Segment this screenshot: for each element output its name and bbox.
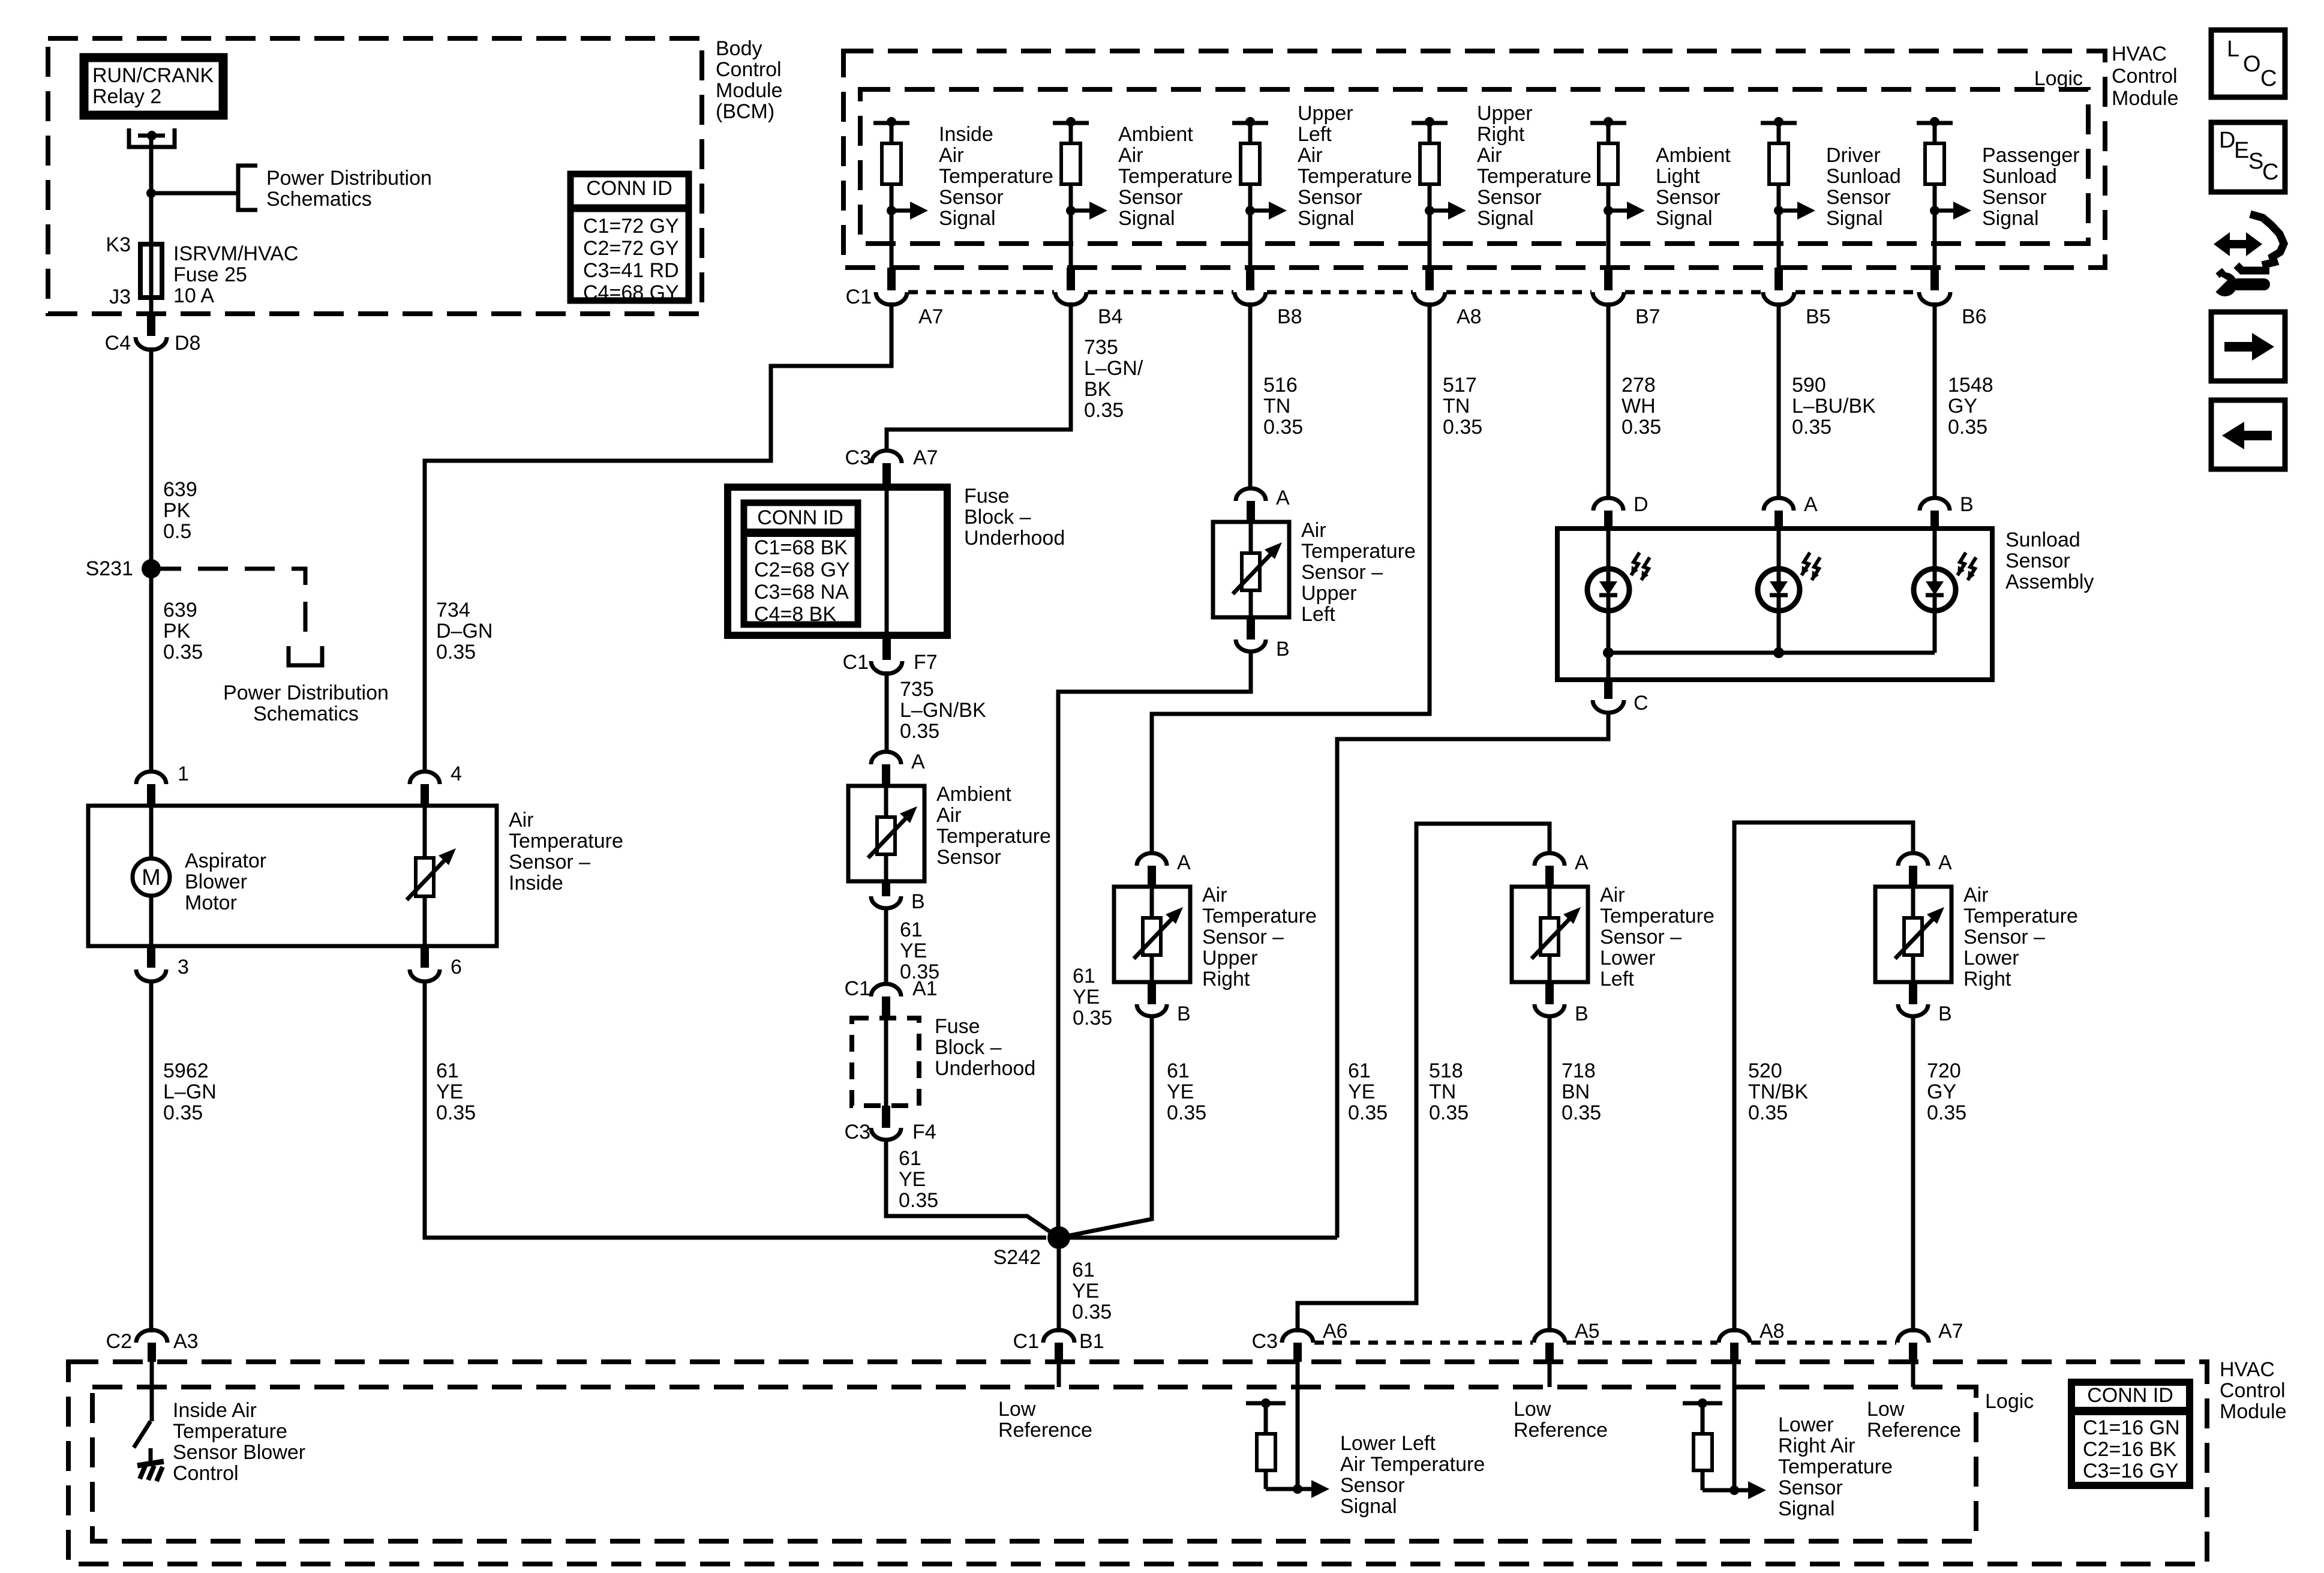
S242 to sunload branch wire [1059,1236,1337,1240]
svg-text:Temperature: Temperature [1778,1455,1893,1478]
svg-text:Sensor –: Sensor – [1202,926,1284,948]
svg-text:Lower: Lower [1600,947,1656,969]
wire 61 YE 0.35 (upper left B to S242) [1058,650,1251,1238]
svg-text:D: D [1634,493,1649,516]
svg-text:0.35: 0.35 [1622,416,1661,439]
svg-text:A: A [1804,493,1818,516]
Logic inner dashed box (top) [860,89,2088,244]
svg-text:Signal: Signal [1982,207,2039,230]
svg-text:Sensor: Sensor [1656,186,1721,209]
svg-text:C2: C2 [106,1330,132,1353]
connector C1/F7 (fuse block bottom) [882,639,891,660]
dashed branch to power distribution [151,569,305,646]
svg-text:4: 4 [451,763,462,785]
svg-text:A: A [1938,851,1952,874]
svg-text:L–BU/BK: L–BU/BK [1792,395,1876,418]
wire to switch [150,1362,154,1421]
svg-text:TN/BK: TN/BK [1748,1080,1808,1103]
svg-text:S: S [2248,149,2263,174]
logic element: Upper Right Air Temperature Sensor Signal [1412,121,1448,125]
svg-text:0.35: 0.35 [163,1101,203,1124]
svg-text:Sensor: Sensor [936,846,1001,869]
svg-text:B: B [1575,1002,1589,1025]
svg-text:Air: Air [1963,884,1989,906]
svg-text:M: M [142,865,161,890]
svg-text:Temperature: Temperature [936,825,1051,848]
wire 61 YE 0.35 (ambient B down) [884,908,888,984]
svg-text:Lower Left: Lower Left [1340,1432,1436,1455]
svg-text:Logic: Logic [1985,1390,2034,1413]
svg-text:C2=72 GY: C2=72 GY [583,237,679,260]
svg-text:61: 61 [900,918,923,941]
svg-text:C4: C4 [105,332,131,355]
svg-text:Fuse: Fuse [964,485,1010,508]
wire 518 TN 0.35 (A6 to lower left sensor A) [1298,824,1550,1332]
wire 1548 GY 0.35 (B6 to sunload B) [1933,302,1937,499]
svg-text:C3: C3 [1252,1330,1278,1353]
wire to power distribution [151,191,238,196]
svg-text:518: 518 [1429,1059,1463,1082]
svg-text:Signal: Signal [939,207,996,230]
logic element: Upper Left Air Temperature Sensor Signal [1232,121,1268,125]
splice S231 [142,559,161,578]
svg-text:Upper: Upper [1477,102,1533,125]
svg-text:Sensor –: Sensor – [1963,926,2045,948]
svg-text:61: 61 [1072,1259,1095,1281]
svg-text:61: 61 [1073,965,1095,987]
lower right air temperature sensor signal (logic) [1733,1362,1737,1490]
svg-text:YE: YE [1073,986,1100,1008]
wire 61 YE 0.35 (sunload C to S242) [1337,712,1608,1238]
svg-text:Inside Air: Inside Air [173,1399,257,1422]
svg-text:J3: J3 [109,286,131,308]
wire 5962 L-GN 0.35 [149,980,154,1332]
svg-text:A8: A8 [1457,305,1482,328]
svg-text:D–GN: D–GN [436,620,493,643]
svg-text:C3: C3 [845,446,871,469]
svg-text:61: 61 [1167,1059,1190,1082]
Body Control Module (BCM) dashed box [48,38,702,314]
logic element: Ambient Light Sensor Signal [1590,121,1626,125]
svg-text:C1=68 BK: C1=68 BK [754,536,848,559]
svg-text:F7: F7 [914,651,938,674]
svg-text:L–GN: L–GN [163,1080,217,1103]
svg-text:Driver: Driver [1826,144,1881,167]
svg-text:Low: Low [1867,1398,1905,1421]
svg-text:Left: Left [1600,968,1634,990]
svg-text:0.35: 0.35 [1429,1101,1469,1124]
svg-text:Sunload: Sunload [1982,165,2057,188]
svg-text:Ambient: Ambient [1656,144,1731,167]
Fuse Block - Underhood dashed box [852,1018,919,1106]
logic element: Ambient Air Temperature Sensor Signal [1053,121,1089,125]
connector pin A [1236,488,1266,501]
svg-text:A7: A7 [913,446,938,469]
connector A5 [1534,1330,1565,1343]
svg-text:YE: YE [436,1080,463,1103]
svg-text:61: 61 [899,1147,921,1170]
svg-text:Underhood: Underhood [964,527,1065,550]
Aspirator Blower Motor box [88,806,497,946]
wire 735 L-GN/BK 0.35 [885,671,889,752]
svg-text:S242: S242 [993,1246,1041,1269]
svg-text:Upper: Upper [1298,102,1353,125]
variable resistor element [1213,522,1289,617]
relay K: RUN/CRANK Relay 2 box [84,58,223,115]
svg-text:Control: Control [2112,65,2178,88]
svg-text:C3=41 RD: C3=41 RD [583,259,679,282]
wire through fuse block [885,484,889,639]
svg-text:C2=68 GY: C2=68 GY [754,559,850,581]
connector C1/A1 [871,984,901,996]
svg-text:Sensor –: Sensor – [1600,926,1682,948]
icon: back arrow box [2211,400,2285,469]
svg-text:0.35: 0.35 [1072,1301,1112,1323]
icon: forward arrow box [2211,312,2285,381]
svg-text:Temperature: Temperature [509,830,623,852]
wire 61 YE 0.35 (to S242) [886,1140,1059,1238]
svg-text:Aspirator: Aspirator [185,849,266,872]
svg-text:CONN ID: CONN ID [586,177,672,200]
connector A8 (bottom) [1719,1330,1750,1343]
wrench [2232,278,2270,290]
svg-text:PK: PK [163,499,191,522]
svg-text:Temperature: Temperature [1298,165,1412,188]
connector row dotted line (bottom module) [1314,1341,1533,1345]
svg-text:B: B [1938,1002,1952,1025]
svg-text:Air: Air [509,809,534,831]
connector pin B [1148,982,1156,1004]
svg-text:B4: B4 [1098,305,1123,328]
svg-text:Right: Right [1202,968,1250,990]
logic element: Driver Sunload Sensor Signal [1761,121,1797,125]
svg-text:Air: Air [1600,884,1625,906]
off-page bracket (power distribution) [289,646,322,665]
svg-text:Temperature: Temperature [173,1420,287,1443]
svg-text:590: 590 [1792,374,1826,397]
svg-text:Ambient: Ambient [1118,123,1193,146]
wire 61 YE 0.35 (upper right B to S242) [1059,1014,1152,1238]
wire fuse to BCM edge [149,298,154,314]
svg-text:HVAC: HVAC [2220,1358,2275,1381]
svg-text:Assembly: Assembly [2005,571,2094,593]
svg-text:0.35: 0.35 [163,641,203,664]
lower left air temperature sensor signal (logic) [1296,1362,1300,1489]
connector C (sunload) [1604,680,1613,699]
svg-text:B1: B1 [1079,1330,1104,1353]
svg-text:5962: 5962 [163,1059,209,1082]
svg-text:Air: Air [936,804,962,827]
connector B7 [1604,268,1613,290]
svg-text:B5: B5 [1806,305,1831,328]
photodiode 2 [1777,529,1781,569]
svg-text:C: C [2260,66,2277,91]
svg-text:Logic: Logic [2034,67,2083,90]
svg-text:BK: BK [1084,378,1112,401]
relay contact latch symbol [129,128,175,147]
svg-text:Sensor –: Sensor – [1301,561,1383,584]
svg-text:Relay 2: Relay 2 [92,85,161,108]
connector pin B [1909,982,1917,1004]
svg-text:Sensor: Sensor [1118,186,1183,209]
svg-text:Temperature: Temperature [1202,905,1317,927]
svg-text:Sensor: Sensor [1982,186,2047,209]
svg-text:Motor: Motor [185,891,237,914]
svg-text:Power Distribution: Power Distribution [223,682,389,704]
photodiode 3 [1933,529,1937,569]
svg-text:3: 3 [178,956,189,978]
svg-text:Air: Air [1202,884,1227,906]
wire 639 PK 0.35 [149,569,154,771]
wire 718 BN 0.35 (lower left B to A5) [1548,1014,1552,1332]
svg-text:A7: A7 [918,305,944,328]
svg-text:A: A [1177,851,1191,874]
svg-text:C1=72 GY: C1=72 GY [583,215,679,238]
svg-text:TN: TN [1263,395,1290,418]
icon: wrench and double arrow (diagnostic) [2214,232,2262,256]
svg-text:A5: A5 [1575,1320,1600,1343]
svg-text:A3: A3 [173,1330,199,1353]
svg-text:Signal: Signal [1298,207,1355,230]
variable resistor element [848,786,924,881]
connector B8 [1246,268,1254,290]
svg-text:C1: C1 [843,651,869,674]
svg-text:B7: B7 [1635,305,1661,328]
svg-text:C1: C1 [845,977,870,1000]
svg-text:Blower: Blower [185,870,247,893]
svg-text:S231: S231 [86,557,133,580]
variable resistor element [1875,887,1951,982]
svg-text:Ambient: Ambient [936,783,1011,806]
wire 61 YE 0.35 (S242 to B1) [1057,1238,1061,1332]
svg-text:WH: WH [1622,395,1656,418]
fuse block CONN ID table [744,503,858,625]
svg-text:Low: Low [1514,1398,1551,1421]
node: power distribution tap [146,188,156,198]
svg-text:L–GN/BK: L–GN/BK [900,699,986,722]
icon: LOC box [2211,30,2285,97]
svg-text:D: D [2219,128,2235,153]
connector pin A [1535,853,1565,866]
connector pin 3 [147,946,155,968]
svg-text:639: 639 [163,478,197,501]
svg-text:Sensor: Sensor [1298,186,1362,209]
wire 516 TN 0.35 (B8 to upper left sensor) [1248,302,1253,488]
svg-text:Sensor: Sensor [1477,186,1542,209]
svg-text:0.35: 0.35 [1348,1101,1388,1124]
svg-text:YE: YE [900,939,927,962]
svg-text:C3=68 NA: C3=68 NA [754,581,849,604]
svg-text:0.35: 0.35 [436,1101,476,1124]
svg-text:C2=16 BK: C2=16 BK [2083,1438,2176,1461]
svg-text:B8: B8 [1277,305,1302,328]
svg-text:Signal: Signal [1656,207,1713,230]
svg-text:0.35: 0.35 [1927,1101,1966,1124]
svg-text:O: O [2243,52,2261,77]
svg-text:ISRVM/HVAC: ISRVM/HVAC [173,242,298,265]
connector A (sunload) [1764,498,1794,511]
svg-text:6: 6 [451,956,462,978]
air temperature sensor - inside element [423,806,427,858]
svg-text:Sensor: Sensor [1778,1476,1843,1499]
svg-text:0.35: 0.35 [1948,416,1987,439]
svg-text:YE: YE [1167,1080,1194,1103]
svg-text:Reference: Reference [1514,1419,1608,1442]
connector pin B [1545,982,1554,1004]
svg-text:F4: F4 [912,1121,936,1143]
connector pin A [1898,853,1928,866]
svg-text:C1=16 GN: C1=16 GN [2083,1416,2180,1439]
svg-text:Right: Right [1963,968,2011,990]
connector B5 [1774,268,1783,290]
fuse K3/J3: ISRVM/HVAC Fuse 25 10 A [140,244,162,298]
svg-text:0.35: 0.35 [1748,1101,1788,1124]
svg-text:Fuse 25: Fuse 25 [173,263,247,286]
svg-text:720: 720 [1927,1059,1961,1082]
svg-text:E: E [2234,138,2249,163]
svg-text:Control: Control [716,58,782,81]
connector pin 4 [410,772,440,784]
svg-text:Air: Air [1118,144,1143,167]
svg-text:517: 517 [1443,374,1477,397]
connector pin A [1137,853,1167,866]
svg-text:C: C [2262,160,2278,185]
svg-text:Module: Module [2112,87,2179,110]
svg-text:A1: A1 [912,977,938,1000]
svg-text:CONN ID: CONN ID [2087,1384,2173,1407]
svg-text:Sensor: Sensor [939,186,1004,209]
connector A8 [1425,268,1434,290]
svg-text:61: 61 [1348,1059,1371,1082]
motor M [149,806,154,858]
svg-text:Air: Air [1298,144,1323,167]
svg-text:B: B [1960,493,1974,516]
icon: DESC box [2211,122,2285,192]
svg-text:A7: A7 [1938,1320,1963,1343]
svg-text:C4=68 GY: C4=68 GY [583,281,679,304]
svg-text:520: 520 [1748,1059,1782,1082]
splice S242 [1047,1226,1070,1249]
svg-text:RUN/CRANK: RUN/CRANK [92,64,214,87]
svg-text:Schematics: Schematics [266,188,372,211]
svg-text:A: A [1276,487,1290,509]
svg-text:Sensor Blower: Sensor Blower [173,1441,305,1464]
svg-text:0.35: 0.35 [1084,399,1124,422]
svg-text:Air: Air [1477,144,1502,167]
svg-text:B: B [1276,638,1290,661]
Logic inner dashed box (bottom) [92,1387,1976,1541]
BCM CONN ID table [571,174,689,301]
svg-text:Control: Control [2220,1379,2286,1402]
svg-text:Left: Left [1301,603,1335,626]
svg-text:Temperature: Temperature [1477,165,1592,188]
svg-text:CONN ID: CONN ID [757,506,843,529]
off-page bracket: Power Distribution Schematics [238,166,257,210]
svg-text:0.35: 0.35 [1263,416,1303,439]
svg-text:A8: A8 [1759,1320,1785,1343]
svg-text:0.35: 0.35 [1167,1101,1206,1124]
svg-text:Signal: Signal [1778,1497,1835,1520]
svg-text:B: B [1177,1002,1191,1025]
svg-text:TN: TN [1443,395,1470,418]
svg-text:735: 735 [900,678,934,701]
wire 735 L-GN/BK (B4 to fuse block) [887,302,1071,449]
connector C3/A7 (fuse block top) [872,451,902,463]
svg-text:Upper: Upper [1301,582,1357,605]
wire 734 D-GN 0.35 (A7 to inside sensor pin 4) [425,302,891,771]
svg-text:Signal: Signal [1826,207,1883,230]
svg-text:0.35: 0.35 [900,720,939,743]
svg-text:Signal: Signal [1118,207,1175,230]
connector C1/B1 [1043,1330,1074,1343]
svg-text:0.5: 0.5 [163,520,191,543]
svg-text:Right: Right [1477,123,1525,146]
svg-text:K3: K3 [106,233,131,256]
svg-text:Temperature: Temperature [1301,540,1416,563]
svg-text:A: A [911,751,925,773]
svg-text:GY: GY [1948,395,1977,418]
svg-text:YE: YE [899,1168,926,1191]
svg-text:10 A: 10 A [173,284,214,307]
HVAC Control Module outer dashed box (top) [843,51,2105,268]
svg-text:A: A [1575,851,1589,874]
svg-text:Sunload: Sunload [1826,165,1901,188]
svg-text:Module: Module [716,79,783,102]
sunload internal bus [1607,610,1611,680]
svg-text:Temperature: Temperature [1963,905,2078,927]
svg-text:Air: Air [939,144,964,167]
svg-text:Inside: Inside [509,872,563,894]
svg-text:Lower: Lower [1963,947,2019,969]
svg-text:GY: GY [1927,1080,1956,1103]
connector A7 (bottom) [1897,1330,1929,1343]
wire 61 YE 0.35 (pin 6 to S242) [425,980,1046,1238]
connector pin 6 [421,946,429,968]
svg-text:718: 718 [1562,1059,1596,1082]
svg-text:Temperature: Temperature [939,165,1053,188]
svg-text:0.35: 0.35 [1443,416,1482,439]
svg-text:A6: A6 [1323,1320,1348,1343]
svg-text:Temperature: Temperature [1600,905,1715,927]
svg-text:734: 734 [436,599,470,622]
connector B6 [1930,268,1939,290]
svg-text:PK: PK [163,620,191,643]
svg-text:Reference: Reference [998,1419,1092,1442]
svg-text:Signal: Signal [1340,1495,1397,1518]
connector C1/A7 (top module) [887,268,896,290]
connector C2/A3 [136,1330,167,1343]
svg-text:BN: BN [1562,1080,1590,1103]
svg-text:Low: Low [998,1398,1036,1421]
connector B4 [1067,268,1075,290]
svg-text:0.35: 0.35 [899,1189,938,1212]
svg-text:Sensor –: Sensor – [509,851,590,873]
connector pin B [1247,617,1255,640]
svg-text:0.35: 0.35 [1073,1007,1112,1029]
chassis ground [149,1448,153,1464]
svg-text:Inside: Inside [939,123,993,146]
Sunload Sensor Assembly box [1557,529,1992,680]
svg-text:Block –: Block – [964,506,1031,529]
connector pin A [871,752,901,764]
svg-text:D8: D8 [175,332,200,355]
photodiode 1 [1607,529,1611,569]
wire 590 L-BU/BK 0.35 (B5 to sunload A) [1777,302,1781,499]
svg-text:0.35: 0.35 [436,641,476,664]
wire 517 TN 0.35 (A8 to upper right sensor) [1152,302,1430,853]
connector C3/F4 [882,1106,890,1128]
svg-text:C1: C1 [846,286,872,308]
